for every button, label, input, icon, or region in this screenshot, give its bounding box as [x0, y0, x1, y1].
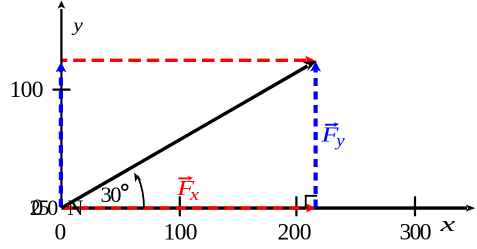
force vector F (250 N at 30 degrees): [62, 61, 317, 208]
red dashed projection line at top (Fx at height Fy): [63, 56, 315, 65]
Fx label (red, vector arrow over F with subscript x): [176, 176, 200, 204]
x-axis tick 100: [179, 196, 181, 216]
svg-text:250: 250: [30, 195, 59, 220]
y-axis: [58, 1, 66, 208]
svg-text:x: x: [439, 212, 455, 236]
red dashed component Fx along x-axis: [63, 203, 316, 212]
x-axis tick 300: [414, 196, 416, 216]
svg-text:30: 30: [101, 182, 122, 207]
svg-text:200: 200: [278, 219, 312, 245]
svg-text:300: 300: [400, 219, 432, 245]
blue dashed projection along y-axis: [56, 62, 67, 207]
svg-text:100: 100: [10, 77, 44, 103]
right-angle marker at base of Fy: [306, 196, 318, 208]
svg-text:y: y: [71, 16, 83, 36]
svg-text:N: N: [68, 195, 84, 220]
svg-text:y: y: [334, 131, 345, 150]
y-axis tick 100: [53, 88, 71, 90]
angle arc 30 degrees: [134, 172, 144, 208]
svg-text:100: 100: [164, 219, 198, 245]
x-axis tick 200: [295, 196, 297, 216]
svg-text:0: 0: [55, 219, 67, 245]
svg-text:x: x: [189, 186, 200, 205]
blue dashed component Fy at x=216: [310, 61, 321, 207]
x-axis: [62, 205, 476, 212]
magnitude label 250 N: [30, 195, 84, 220]
Fy label (blue, vector arrow over F with subscript y): [320, 122, 344, 150]
